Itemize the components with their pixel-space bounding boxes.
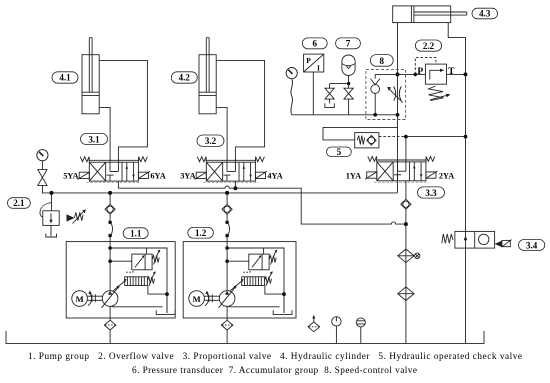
hydraulic operated check valve 5 bbox=[355, 133, 379, 148]
label 2.1 bbox=[8, 198, 31, 209]
svg-text:4YA: 4YA bbox=[267, 171, 282, 180]
junction 2.2 T at main right line bbox=[464, 72, 468, 76]
relief valve 2.2 bbox=[398, 58, 466, 101]
junction 2.2 pilot takeoff bbox=[414, 73, 418, 77]
thermometer bbox=[356, 318, 365, 344]
accumulator 7 bbox=[342, 55, 355, 84]
svg-text:M: M bbox=[193, 294, 201, 304]
label 7 bbox=[336, 38, 361, 49]
label 8 bbox=[370, 55, 393, 67]
svg-text:4.2: 4.2 bbox=[179, 73, 191, 83]
svg-text:M: M bbox=[76, 294, 84, 304]
throttle inside 8 bbox=[387, 86, 403, 102]
tank line bbox=[6, 331, 484, 344]
junction accumulator branch bbox=[347, 82, 350, 85]
transducer network line bbox=[292, 114, 398, 116]
wire gauge to shutoff bbox=[41, 161, 43, 170]
svg-text:2.2: 2.2 bbox=[423, 41, 435, 51]
pump group 1.2 box bbox=[183, 242, 296, 318]
cooler with fan bbox=[398, 249, 420, 263]
label 3.2 bbox=[197, 135, 224, 146]
accumulator isolation branch bar bbox=[330, 83, 349, 85]
svg-text:6. Pressure transducer 7. Acc: 6. Pressure transducer 7. Accumulator gr… bbox=[132, 366, 417, 376]
label 4.2 bbox=[171, 72, 197, 83]
pressure transducer 6 bbox=[304, 54, 324, 115]
label 3.4 bbox=[519, 240, 545, 251]
T return line bbox=[118, 181, 406, 224]
pump group 1.1 box bbox=[66, 242, 175, 318]
junction return line below valve 3.3 bbox=[404, 222, 408, 226]
label 1.1 bbox=[123, 228, 148, 239]
pilot wire check valve 5 to node bbox=[379, 136, 406, 138]
label 2.2 bbox=[415, 40, 441, 51]
label 6 bbox=[302, 38, 327, 49]
svg-text:6YA: 6YA bbox=[150, 171, 165, 180]
label 4.1 bbox=[52, 72, 78, 83]
junction at main right line y136 bbox=[464, 135, 468, 139]
solenoid valve 3.4 bbox=[442, 231, 512, 248]
pressure bus bbox=[42, 185, 397, 193]
wire cylinder 4.2 cap-side port to valve 3.2 A bbox=[216, 107, 227, 162]
svg-text:8: 8 bbox=[380, 56, 385, 66]
check valve below 3.3 bbox=[401, 181, 411, 344]
svg-text:5: 5 bbox=[337, 147, 342, 157]
wire node down to valve 3.3 B bbox=[405, 137, 407, 162]
check valve inside 8 bbox=[370, 74, 397, 114]
proportional valve 3.3 bbox=[365, 156, 437, 182]
svg-text:P: P bbox=[417, 67, 423, 77]
overflow valve 2.1 bbox=[40, 193, 86, 237]
shutoff valve right branch bbox=[344, 84, 353, 115]
label 3.3 bbox=[418, 187, 445, 198]
svg-text:I: I bbox=[317, 64, 320, 73]
svg-text:3.2: 3.2 bbox=[205, 136, 217, 146]
junction at bus and overflow valve branch bbox=[50, 191, 54, 195]
svg-text:6: 6 bbox=[313, 39, 318, 49]
svg-text:1.2: 1.2 bbox=[195, 228, 207, 238]
svg-text:1YA: 1YA bbox=[346, 171, 361, 180]
label 5 bbox=[327, 147, 352, 157]
svg-text:T: T bbox=[448, 67, 455, 77]
junction check valve 5 pilot node bbox=[404, 135, 408, 139]
svg-text:2YA: 2YA bbox=[439, 171, 454, 180]
breather bbox=[308, 315, 320, 332]
junction valve 8 top at cylinder 4.3 line bbox=[396, 72, 400, 76]
shutoff valve left branch bbox=[325, 84, 334, 108]
wire cylinder 4.1 cap-side port to valve 3.1 A bbox=[99, 107, 110, 162]
level gauge bbox=[332, 317, 341, 344]
speed-control valve 8 (dashed enclosure) bbox=[366, 69, 406, 119]
wire cylinder 4.3 left port down to bus bbox=[397, 23, 399, 193]
wire cylinder 4.1 rod-side port to valve 3.1 B bbox=[99, 60, 147, 162]
svg-text:3.4: 3.4 bbox=[526, 240, 538, 250]
svg-text:3.3: 3.3 bbox=[425, 188, 437, 198]
pump group 1.1 internals bbox=[72, 191, 175, 344]
svg-text:2.1: 2.1 bbox=[13, 198, 25, 208]
svg-text:3YA: 3YA bbox=[180, 171, 195, 180]
svg-text:3.1: 3.1 bbox=[88, 134, 100, 144]
cooler lower bbox=[398, 287, 414, 301]
label 1.2 bbox=[188, 227, 214, 238]
cylinder 4.1 bbox=[82, 38, 99, 114]
gauge G1 bbox=[37, 150, 48, 161]
wire cylinder 4.3 right port to main right line bbox=[448, 23, 465, 344]
wire cylinder 4.2 rod-side port to valve 3.2 B bbox=[216, 60, 264, 162]
junction valve 8 check outlet bbox=[373, 113, 377, 117]
svg-text:P: P bbox=[306, 56, 311, 65]
label 3.1 bbox=[81, 134, 108, 145]
pump group 1.2 internals bbox=[189, 191, 292, 344]
shutoff valve at gauge G1 bbox=[38, 170, 47, 186]
svg-text:1.1: 1.1 bbox=[130, 228, 142, 238]
junction valve 8 throttle outlet bbox=[396, 113, 400, 117]
svg-text:5YA: 5YA bbox=[63, 171, 78, 180]
svg-text:4.1: 4.1 bbox=[59, 73, 71, 83]
label 4.3 bbox=[472, 8, 498, 19]
gauge G2 bbox=[286, 68, 297, 115]
wire node to main right line bbox=[406, 136, 466, 138]
proportional valve 3.1 bbox=[78, 157, 150, 183]
svg-text:4.3: 4.3 bbox=[479, 9, 491, 19]
cylinder 4.3 bbox=[393, 6, 467, 23]
wire valve-8 output to check valve 5 and valve 3.3 A bbox=[323, 127, 398, 139]
junction valve 3.2 T port on return line bbox=[233, 186, 237, 190]
cylinder 4.2 bbox=[199, 38, 216, 114]
wire valve 3.2 T port bbox=[234, 181, 236, 188]
svg-text:7: 7 bbox=[346, 39, 351, 49]
svg-text:1. Pump group 2. Overflow va: 1. Pump group 2. Overflow valve 3. Propo… bbox=[28, 351, 522, 362]
proportional valve 3.2 bbox=[195, 157, 267, 183]
